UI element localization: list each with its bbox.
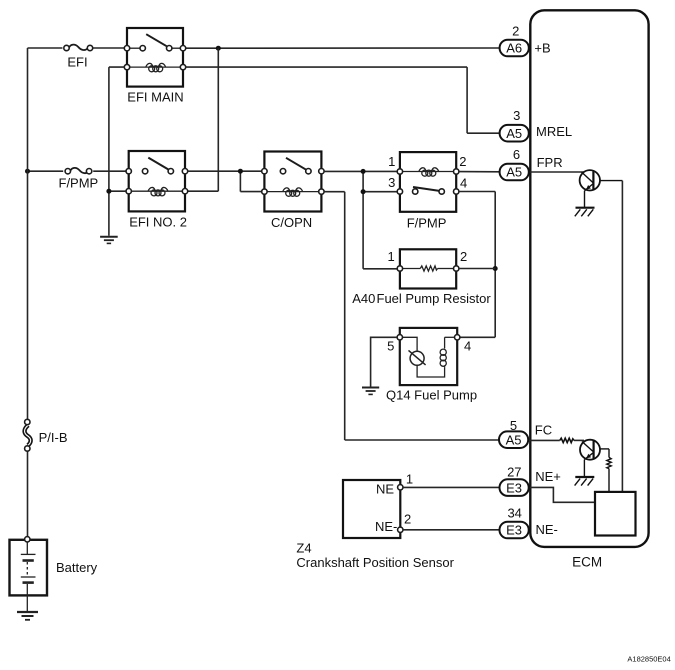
wire FC base with resistor [530,438,584,442]
svg-text:A40: A40 [352,291,375,306]
svg-text:MREL: MREL [536,124,572,139]
svg-text:3: 3 [513,108,520,123]
wire coil left to ground line [109,190,126,192]
fuse F/PMP [65,168,92,174]
pin 2 F/PMP [459,154,466,169]
svg-text:EFI: EFI [67,55,87,70]
coil EFI MAIN [130,63,180,71]
label NE+ [535,469,561,484]
svg-text:5: 5 [387,339,394,354]
node F/PMP row1 [361,169,366,174]
connector A5 FPR [500,164,529,181]
wire EFI NO2 coil ground leg [108,67,110,236]
left main vertical wire [27,48,29,538]
wire NE+ inside ECM [530,487,595,502]
svg-text:Battery: Battery [56,560,98,575]
svg-text:4: 4 [464,339,471,354]
pin 5 FC [510,418,517,433]
wire NE+ row [403,486,499,488]
svg-text:1: 1 [387,249,394,264]
transistor FC [580,440,609,477]
relay EFI NO2 [129,151,185,211]
svg-text:NE-: NE- [536,522,558,537]
label FPR [537,155,563,170]
transistor FPR [580,170,623,207]
resistor A40 [400,249,456,288]
svg-text:EFI MAIN: EFI MAIN [127,89,183,104]
coil F/PMP [403,168,453,176]
connector A5 FC [499,431,528,448]
svg-text:A5: A5 [506,432,522,447]
label EFI MAIN [127,89,183,104]
pin 3 F/PMP [388,175,395,190]
relay EFI MAIN [127,28,183,87]
wire F/PMP fuse row [28,170,129,172]
relay F/PMP [400,152,456,212]
coil C/OPN [267,188,318,196]
wire F/PMP pin2 to FPR [459,171,500,173]
pin 4 Q14 [464,339,471,354]
ECM box [530,10,648,547]
svg-text:2: 2 [459,154,466,169]
connector P/I-B [25,425,31,445]
label Z4 [296,540,311,555]
label P/I-B [39,430,68,445]
svg-text:NE-: NE- [375,519,397,534]
label Crankshaft Position Sensor [296,555,454,570]
svg-text:P/I-B: P/I-B [39,430,68,445]
resistor FC collector [607,449,611,492]
pin 1 Z4 [406,472,413,487]
ground below EFI NO2 [100,237,118,244]
pulse circuit box inside ECM [595,492,636,536]
coil Q14 [440,337,455,367]
connector E3 NE+ [500,479,529,496]
label F/PMP relay [407,216,447,231]
ground below Q14 [362,388,379,395]
label A40 Fuel Pump Resistor [352,291,491,306]
pin 27 [507,465,521,480]
svg-text:A6: A6 [506,41,522,56]
node EFI NO2 coil ground [106,189,111,194]
wire +B vertical to EFI NO2 coil [187,48,218,191]
svg-text:2: 2 [512,24,519,39]
pin 2 A6 [512,24,519,39]
wire Q14 pin5 to ground [371,337,398,386]
svg-text:Q14 Fuel Pump: Q14 Fuel Pump [386,388,477,403]
pin 5 Q14 [387,339,394,354]
ground FC transistor [575,477,595,486]
node A40 pin2 [493,266,498,271]
svg-text:FPR: FPR [537,155,563,170]
svg-text:NE+: NE+ [535,469,561,484]
node left main tap [25,169,30,174]
svg-text:NE: NE [376,481,394,496]
pin 2 Z4 [404,512,411,527]
switch F/PMP row34 [397,187,459,194]
label C/OPN [271,215,312,230]
svg-text:+B: +B [534,41,550,56]
wire A40 pin2 to node [459,268,495,270]
svg-text:6: 6 [513,147,520,162]
motor symbol Q14 [403,337,445,377]
pin 1 A40 [387,249,394,264]
svg-text:A182850E04: A182850E04 [627,655,670,664]
pin 4 F/PMP [460,176,467,191]
node switch row [238,169,243,174]
node F/PMP row3 [361,189,366,194]
svg-text:2: 2 [460,249,467,264]
connector A5 MREL [500,125,529,142]
label NE- sensor [375,519,397,534]
svg-text:ECM: ECM [572,554,602,569]
svg-text:E3: E3 [506,480,522,495]
svg-text:F/PMP: F/PMP [59,175,99,190]
wire MREL path [109,67,500,133]
battery [10,540,48,596]
connector E3 NE- [500,522,529,539]
label NE [376,481,394,496]
label F/PMP fuse [59,175,99,190]
svg-text:1: 1 [388,154,395,169]
svg-text:Fuel Pump Resistor: Fuel Pump Resistor [377,291,492,306]
pin 34 [507,505,521,520]
svg-text:27: 27 [507,465,521,480]
svg-text:E3: E3 [506,523,522,538]
svg-text:A5: A5 [506,165,522,180]
label +B [534,41,550,56]
svg-text:4: 4 [460,176,467,191]
svg-text:Crankshaft Position Sensor: Crankshaft Position Sensor [296,555,454,570]
svg-text:C/OPN: C/OPN [271,215,312,230]
label MREL [536,124,572,139]
coil EFI NO2 [131,187,182,195]
wire FPR base [530,171,584,173]
node junction top [216,46,221,51]
svg-text:F/PMP: F/PMP [407,216,447,231]
wire FPR collector down [621,181,623,492]
pin 2 A40 [460,249,467,264]
ground FPR transistor [575,208,595,217]
pin 3 MREL [513,108,520,123]
label ECM [572,554,602,569]
svg-text:A5: A5 [506,126,522,141]
svg-text:1: 1 [406,472,413,487]
label EFI NO. 2 [129,215,187,230]
wire NE- row [403,529,499,531]
svg-text:3: 3 [388,175,395,190]
svg-text:EFI NO. 2: EFI NO. 2 [129,215,187,230]
label Battery [56,560,98,575]
wire C/OPN switch to F/PMP relay [324,171,400,268]
svg-text:5: 5 [510,418,517,433]
wire C/OPN coil to FC [324,192,499,440]
note A182850E04 [627,655,670,664]
label FC [535,423,552,438]
wire F/PMP pin4 down to Q14 [459,192,495,338]
label NE- ecm [536,522,558,537]
svg-text:2: 2 [404,512,411,527]
label EFI [67,55,87,70]
label Q14 Fuel Pump [386,388,477,403]
pump Q14 [400,328,457,385]
connector A6 +B [500,40,529,57]
pin 6 FPR [513,147,520,162]
wire top +B row [28,47,500,49]
fuse EFI [64,45,93,51]
pin 1 F/PMP [388,154,395,169]
ground below battery [17,612,38,620]
relay C/OPN [264,152,321,212]
svg-text:34: 34 [507,505,521,520]
svg-text:FC: FC [535,423,552,438]
wire switch row to C/OPN [187,171,264,191]
svg-text:Z4: Z4 [296,540,311,555]
sensor Z4 box [343,480,400,538]
